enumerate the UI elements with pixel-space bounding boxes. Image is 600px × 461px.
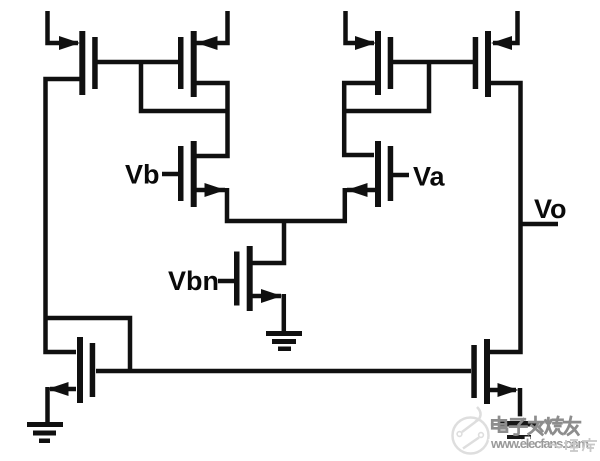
svg-text:Vo: Vo: [534, 194, 567, 224]
svg-text:Vb: Vb: [125, 160, 160, 190]
svg-text:Vbn: Vbn: [168, 266, 219, 296]
svg-text:Va: Va: [413, 162, 446, 192]
